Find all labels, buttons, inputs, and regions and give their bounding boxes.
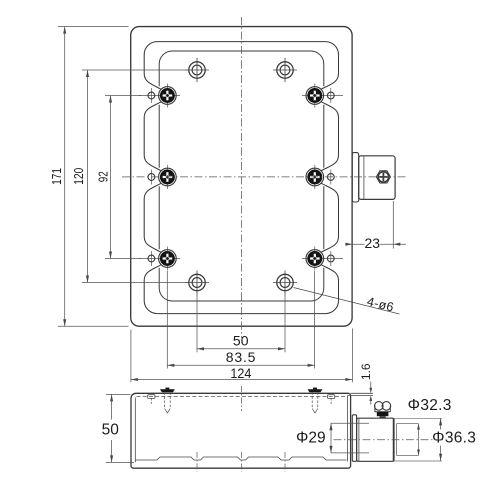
svg-text:23: 23 (365, 235, 381, 251)
svg-text:50: 50 (233, 333, 249, 349)
svg-text:92: 92 (97, 171, 111, 182)
svg-text:1.6: 1.6 (359, 363, 373, 380)
svg-text:120: 120 (72, 168, 86, 185)
svg-text:50: 50 (102, 421, 120, 438)
svg-text:124: 124 (230, 365, 251, 381)
svg-text:83.5: 83.5 (226, 349, 256, 365)
svg-text:Φ36.3: Φ36.3 (432, 429, 476, 446)
svg-text:Φ32.3: Φ32.3 (408, 397, 452, 414)
svg-text:Φ29: Φ29 (296, 429, 326, 446)
svg-text:171: 171 (50, 168, 64, 185)
